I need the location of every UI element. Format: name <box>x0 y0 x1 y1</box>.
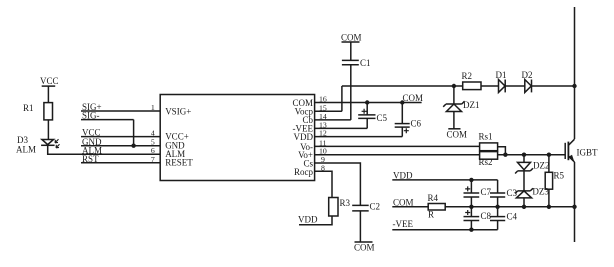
svg-text:Rs2: Rs2 <box>479 157 493 167</box>
wire ALM to pin6 <box>81 153 160 155</box>
wire Vo- row (pin11) <box>315 145 480 147</box>
svg-text:DZ2: DZ2 <box>533 160 550 170</box>
svg-text:C4: C4 <box>507 212 518 222</box>
wire Vocp riser <box>341 86 343 111</box>
LED D3 (ALM indicator) <box>16 135 60 155</box>
wire R2 to D1 <box>481 85 499 87</box>
resistor Rs1 <box>479 132 498 151</box>
wire VCC to R1 <box>47 86 49 103</box>
wire VCC to pin4 <box>81 136 160 138</box>
wire VDD rail <box>392 179 497 181</box>
junction DZ2 top <box>522 153 526 157</box>
wire -VEE rail <box>392 229 497 231</box>
transistor Q1 IGBT <box>565 139 598 162</box>
zener DZ1 <box>443 100 479 111</box>
wire gate supply line to R2 <box>342 85 463 87</box>
svg-text:-VEE: -VEE <box>393 219 414 229</box>
capacitor C7 (polarized) <box>464 180 492 207</box>
wire COM to C1 <box>350 42 352 60</box>
svg-text:R: R <box>428 210 434 220</box>
junction R5 bottom <box>547 205 551 209</box>
wire C2 to COM <box>359 211 361 242</box>
svg-text:Rocp: Rocp <box>294 167 313 177</box>
wire pin15 row (Vocp) <box>315 110 342 112</box>
wire pin9 Cs row <box>315 163 361 205</box>
capacitor C1 <box>342 58 371 68</box>
svg-text:COM: COM <box>403 93 424 103</box>
svg-text:C8: C8 <box>481 211 492 221</box>
svg-text:R1: R1 <box>23 103 34 113</box>
svg-text:VCC: VCC <box>40 76 59 86</box>
wire COM rail to R4 <box>392 206 428 208</box>
svg-text:Rs1: Rs1 <box>479 132 493 142</box>
resistor R4 <box>428 193 446 220</box>
wire SIG- drop to GND <box>133 120 135 146</box>
zener DZ2 <box>515 160 549 173</box>
svg-text:1: 1 <box>151 103 155 112</box>
svg-text:IGBT: IGBT <box>577 148 598 158</box>
wire C1 to Cb pin14 <box>350 65 352 120</box>
junction C3/C4 mid <box>495 205 499 209</box>
junction C8 bottom <box>469 228 473 232</box>
svg-text:RESET: RESET <box>165 158 193 168</box>
resistor Rs2 <box>479 152 498 167</box>
wire pin8 Rocp row <box>315 171 332 197</box>
power VCC <box>40 76 59 86</box>
wire D3 to ALM net <box>48 145 81 154</box>
svg-text:4: 4 <box>151 129 155 138</box>
resistor R5 <box>545 171 564 190</box>
svg-text:D3: D3 <box>17 135 28 145</box>
wire DZ1 to COM <box>453 112 455 129</box>
svg-text:D2: D2 <box>522 70 533 80</box>
junction DZ1 node <box>452 84 456 88</box>
svg-text:R5: R5 <box>554 171 565 181</box>
svg-text:R3: R3 <box>340 198 351 208</box>
svg-text:7: 7 <box>151 155 155 164</box>
junction C7/C8 mid <box>469 205 473 209</box>
wire gate row to R5 <box>548 155 550 173</box>
wire RST to pin7 <box>81 162 160 164</box>
wire collector rail <box>574 7 576 139</box>
wire emitter rail <box>574 162 576 242</box>
node COM (below DZ1) <box>447 129 468 140</box>
wire DZ2 to DZ3 <box>523 171 525 191</box>
resistor R1 <box>23 103 53 120</box>
wire to DZ1 <box>453 86 455 104</box>
capacitor C2 <box>352 202 380 212</box>
svg-text:VSIG+: VSIG+ <box>165 107 191 117</box>
svg-text:DZ3: DZ3 <box>532 187 549 197</box>
wire D1 to D2 <box>505 85 525 87</box>
junction Rs1 drop <box>503 153 507 157</box>
junction C5 top <box>365 100 369 104</box>
wire D2 to collector node <box>532 85 575 87</box>
svg-text:C5: C5 <box>377 113 388 123</box>
svg-text:C6: C6 <box>411 119 422 129</box>
wire R3 to VDD <box>299 216 332 225</box>
node COM (below C2) <box>354 242 375 253</box>
wire COM rail to emitter <box>445 206 574 208</box>
svg-text:VDD: VDD <box>294 132 314 142</box>
junction collector node <box>572 84 576 88</box>
wire gate row to DZ2 <box>523 155 525 163</box>
junction C6 top <box>400 100 404 104</box>
capacitor C5 (polarized) <box>358 103 387 129</box>
svg-text:C3: C3 <box>507 188 518 198</box>
capacitor C3 <box>490 180 518 207</box>
svg-text:COM: COM <box>341 33 362 43</box>
svg-text:VDD: VDD <box>298 215 318 225</box>
svg-text:R2: R2 <box>462 71 473 81</box>
wire pin16 COM row <box>315 102 422 104</box>
svg-text:R4: R4 <box>428 193 439 203</box>
capacitor C4 <box>490 207 518 230</box>
svg-text:COM: COM <box>393 197 414 207</box>
svg-text:ALM: ALM <box>16 145 36 155</box>
junction SIG-/GND <box>131 144 135 148</box>
svg-text:VDD: VDD <box>393 170 413 180</box>
wire GND to pin5 <box>81 145 160 147</box>
svg-text:COM: COM <box>447 130 468 140</box>
svg-text:C2: C2 <box>370 202 381 212</box>
junction C7 top <box>469 178 473 182</box>
svg-text:D1: D1 <box>496 70 507 80</box>
wire Vo+ row (pin10) <box>315 154 480 156</box>
junction R5 top <box>547 153 551 157</box>
svg-text:DZ1: DZ1 <box>463 100 480 110</box>
resistor R3 <box>329 198 351 217</box>
wire gate row <box>498 154 566 156</box>
junction emitter/COM row <box>572 205 576 209</box>
wire R1 to D3 <box>47 120 49 140</box>
wire pin13 -VEE row <box>315 127 368 129</box>
IC U1 (IGBT gate driver) <box>160 95 314 181</box>
zener DZ3 <box>515 187 549 198</box>
node COM (top rail) <box>341 33 362 43</box>
wire Rs1 output to gate row <box>498 147 506 155</box>
resistor R2 <box>462 71 482 90</box>
wire SIG+ to pin1 <box>81 110 160 112</box>
junction DZ3 bottom <box>522 205 526 209</box>
wire R5 to COM row <box>548 189 550 207</box>
wire SIG- <box>81 119 134 121</box>
wire pin14 row <box>315 119 351 121</box>
svg-text:C1: C1 <box>360 58 371 68</box>
diode D2 <box>522 70 533 92</box>
capacitor C6 <box>395 103 422 137</box>
diode D1 <box>496 70 507 92</box>
svg-text:COM: COM <box>354 243 375 253</box>
svg-text:C7: C7 <box>481 187 492 197</box>
wire pin12 VDD row <box>315 136 403 138</box>
wire DZ3 to COM row <box>523 198 525 207</box>
capacitor C8 (polarized) <box>464 207 492 230</box>
